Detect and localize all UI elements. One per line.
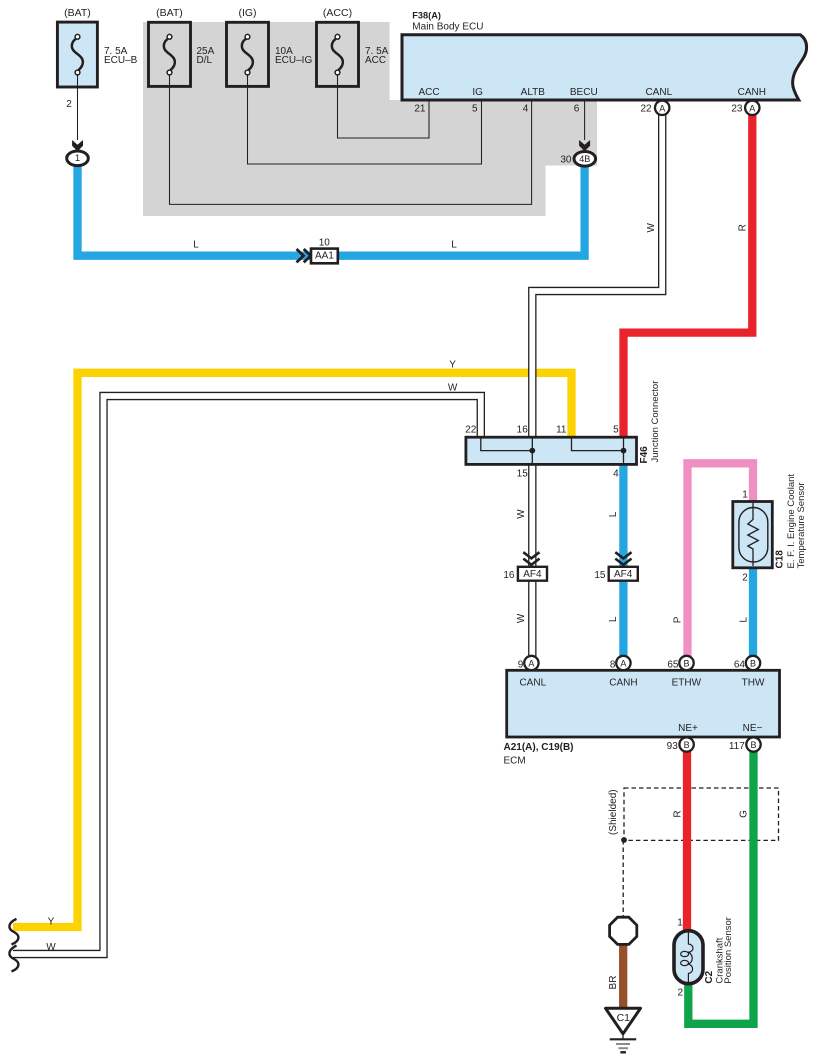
svg-text:4: 4	[613, 469, 619, 480]
svg-text:W: W	[516, 613, 527, 623]
svg-text:AF4: AF4	[614, 569, 633, 580]
svg-text:6: 6	[574, 104, 580, 115]
svg-text:22: 22	[640, 104, 652, 115]
svg-text:10: 10	[319, 238, 331, 249]
svg-text:22: 22	[465, 425, 477, 436]
svg-text:BECU: BECU	[570, 87, 598, 98]
svg-text:Main Body ECU: Main Body ECU	[412, 22, 483, 33]
svg-text:23: 23	[731, 104, 743, 115]
svg-text:L: L	[608, 616, 619, 622]
svg-text:65: 65	[667, 660, 679, 671]
svg-text:L: L	[739, 617, 750, 623]
svg-text:5: 5	[613, 425, 619, 436]
svg-text:L: L	[193, 240, 199, 251]
svg-text:CANL: CANL	[519, 678, 546, 689]
svg-text:W: W	[516, 509, 527, 519]
svg-text:A: A	[659, 103, 665, 113]
svg-text:A21(A), C19(B): A21(A), C19(B)	[504, 742, 574, 753]
svg-text:2: 2	[66, 99, 72, 110]
svg-text:117: 117	[729, 741, 745, 752]
svg-text:F46: F46	[639, 446, 650, 464]
svg-text:2: 2	[677, 988, 683, 999]
svg-text:1: 1	[677, 918, 683, 929]
svg-text:A: A	[620, 659, 626, 669]
svg-text:BR: BR	[608, 976, 619, 990]
svg-text:C2: C2	[704, 970, 715, 983]
svg-text:AF4: AF4	[523, 569, 542, 580]
svg-text:ECU–IG: ECU–IG	[275, 55, 312, 66]
svg-text:A: A	[528, 659, 534, 669]
svg-text:64: 64	[734, 660, 746, 671]
svg-text:L: L	[451, 240, 457, 251]
svg-text:ECU–B: ECU–B	[104, 55, 138, 66]
svg-text:R: R	[673, 810, 684, 817]
svg-text:Position Sensor: Position Sensor	[723, 917, 734, 984]
svg-text:AA1: AA1	[315, 251, 334, 262]
svg-text:Temperature Sensor: Temperature Sensor	[796, 482, 807, 568]
svg-text:30: 30	[560, 154, 572, 165]
svg-text:G: G	[739, 810, 750, 818]
svg-text:16: 16	[517, 425, 529, 436]
svg-text:IG: IG	[472, 87, 483, 98]
svg-text:C1: C1	[617, 1012, 631, 1024]
svg-text:5: 5	[472, 104, 478, 115]
svg-text:B: B	[684, 740, 690, 750]
svg-text:4B: 4B	[579, 154, 590, 164]
svg-text:4: 4	[523, 104, 529, 115]
svg-text:1: 1	[742, 490, 748, 501]
svg-text:Y: Y	[48, 917, 55, 928]
svg-text:W: W	[646, 223, 657, 233]
svg-text:ALTB: ALTB	[521, 87, 546, 98]
svg-text:CANH: CANH	[609, 678, 637, 689]
svg-text:Y: Y	[449, 359, 456, 370]
svg-text:NE+: NE+	[678, 723, 698, 734]
svg-text:15: 15	[517, 469, 529, 480]
svg-text:ACC: ACC	[365, 55, 386, 66]
svg-text:D/L: D/L	[197, 55, 213, 66]
svg-text:W: W	[46, 942, 56, 953]
svg-text:(BAT): (BAT)	[156, 7, 183, 19]
svg-text:(Shielded): (Shielded)	[608, 789, 619, 835]
svg-text:C18: C18	[774, 550, 785, 569]
svg-text:CANH: CANH	[738, 87, 766, 98]
svg-text:(IG): (IG)	[238, 7, 256, 19]
svg-text:ACC: ACC	[418, 87, 439, 98]
svg-text:(BAT): (BAT)	[64, 7, 91, 19]
svg-text:93: 93	[667, 741, 679, 752]
svg-text:W: W	[448, 383, 458, 394]
svg-text:11: 11	[556, 425, 567, 436]
svg-text:NE−: NE−	[743, 723, 763, 734]
svg-text:B: B	[750, 659, 756, 669]
svg-text:9: 9	[518, 660, 524, 671]
svg-text:8: 8	[610, 660, 616, 671]
svg-text:L: L	[608, 511, 619, 517]
svg-text:B: B	[683, 659, 689, 669]
svg-text:15: 15	[594, 570, 606, 581]
svg-text:2: 2	[742, 572, 748, 583]
svg-text:B: B	[750, 740, 756, 750]
svg-text:(ACC): (ACC)	[323, 7, 352, 19]
svg-text:1: 1	[75, 153, 80, 164]
svg-text:R: R	[737, 224, 748, 231]
svg-text:A: A	[749, 103, 755, 113]
svg-text:21: 21	[414, 104, 426, 115]
svg-text:CANL: CANL	[645, 87, 672, 98]
svg-text:16: 16	[503, 570, 515, 581]
svg-text:ETHW: ETHW	[672, 678, 702, 689]
svg-text:ECM: ECM	[504, 756, 526, 767]
svg-text:P: P	[673, 616, 684, 623]
svg-text:THW: THW	[742, 678, 765, 689]
svg-text:Junction Connector: Junction Connector	[650, 381, 661, 463]
svg-text:F38(A): F38(A)	[412, 11, 441, 21]
